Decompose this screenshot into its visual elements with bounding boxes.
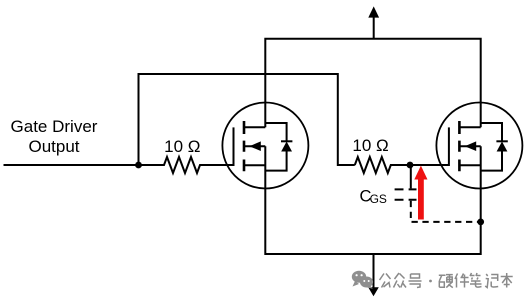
resistor R2 — [355, 157, 449, 173]
watermark text 公众号·硬件笔记本 (simplified strokes) — [380, 273, 513, 288]
众 — [394, 273, 407, 288]
svg-text:GS: GS — [370, 192, 387, 206]
arrow to negative return rail — [368, 254, 379, 296]
transistor Q2 (N-channel MOSFET with body diode) — [436, 103, 522, 189]
label CGS — [360, 187, 387, 206]
current arrow (red, gate charge current into CGS) — [414, 166, 427, 220]
wire top rail with drain leads of Q1 and Q2 — [265, 39, 480, 128]
公 — [380, 274, 391, 288]
· — [429, 280, 432, 283]
transistor Q1 (N-channel MOSFET with body diode) — [222, 103, 308, 189]
arrow to positive supply rail — [368, 6, 379, 38]
capacitor CGS (parasitic, dashed) — [395, 165, 481, 222]
svg-text:Output: Output — [28, 137, 79, 156]
svg-text:Gate Driver: Gate Driver — [11, 117, 98, 136]
watermark icon (chat bubbles) — [352, 271, 373, 289]
resistor R1 — [139, 157, 234, 173]
件 — [455, 274, 469, 288]
硬 — [439, 275, 453, 288]
label Gate Driver Output — [11, 117, 98, 156]
记 — [485, 274, 498, 288]
node A (junction dot) — [135, 162, 142, 169]
node B (junction dot at gate of Q2) — [407, 162, 414, 169]
wire bottom rail with source leads of Q1 and Q2 — [265, 146, 480, 254]
node C (junction dot on source line of Q2) — [477, 219, 484, 226]
svg-text:10 Ω: 10 Ω — [352, 136, 388, 155]
svg-text:10 Ω: 10 Ω — [164, 137, 200, 156]
笔 — [470, 273, 482, 287]
wire gate driver output to node A — [4, 164, 139, 166]
本 — [501, 273, 513, 288]
wire node A up and over to resistor R2 — [139, 74, 355, 165]
号 — [409, 274, 422, 288]
